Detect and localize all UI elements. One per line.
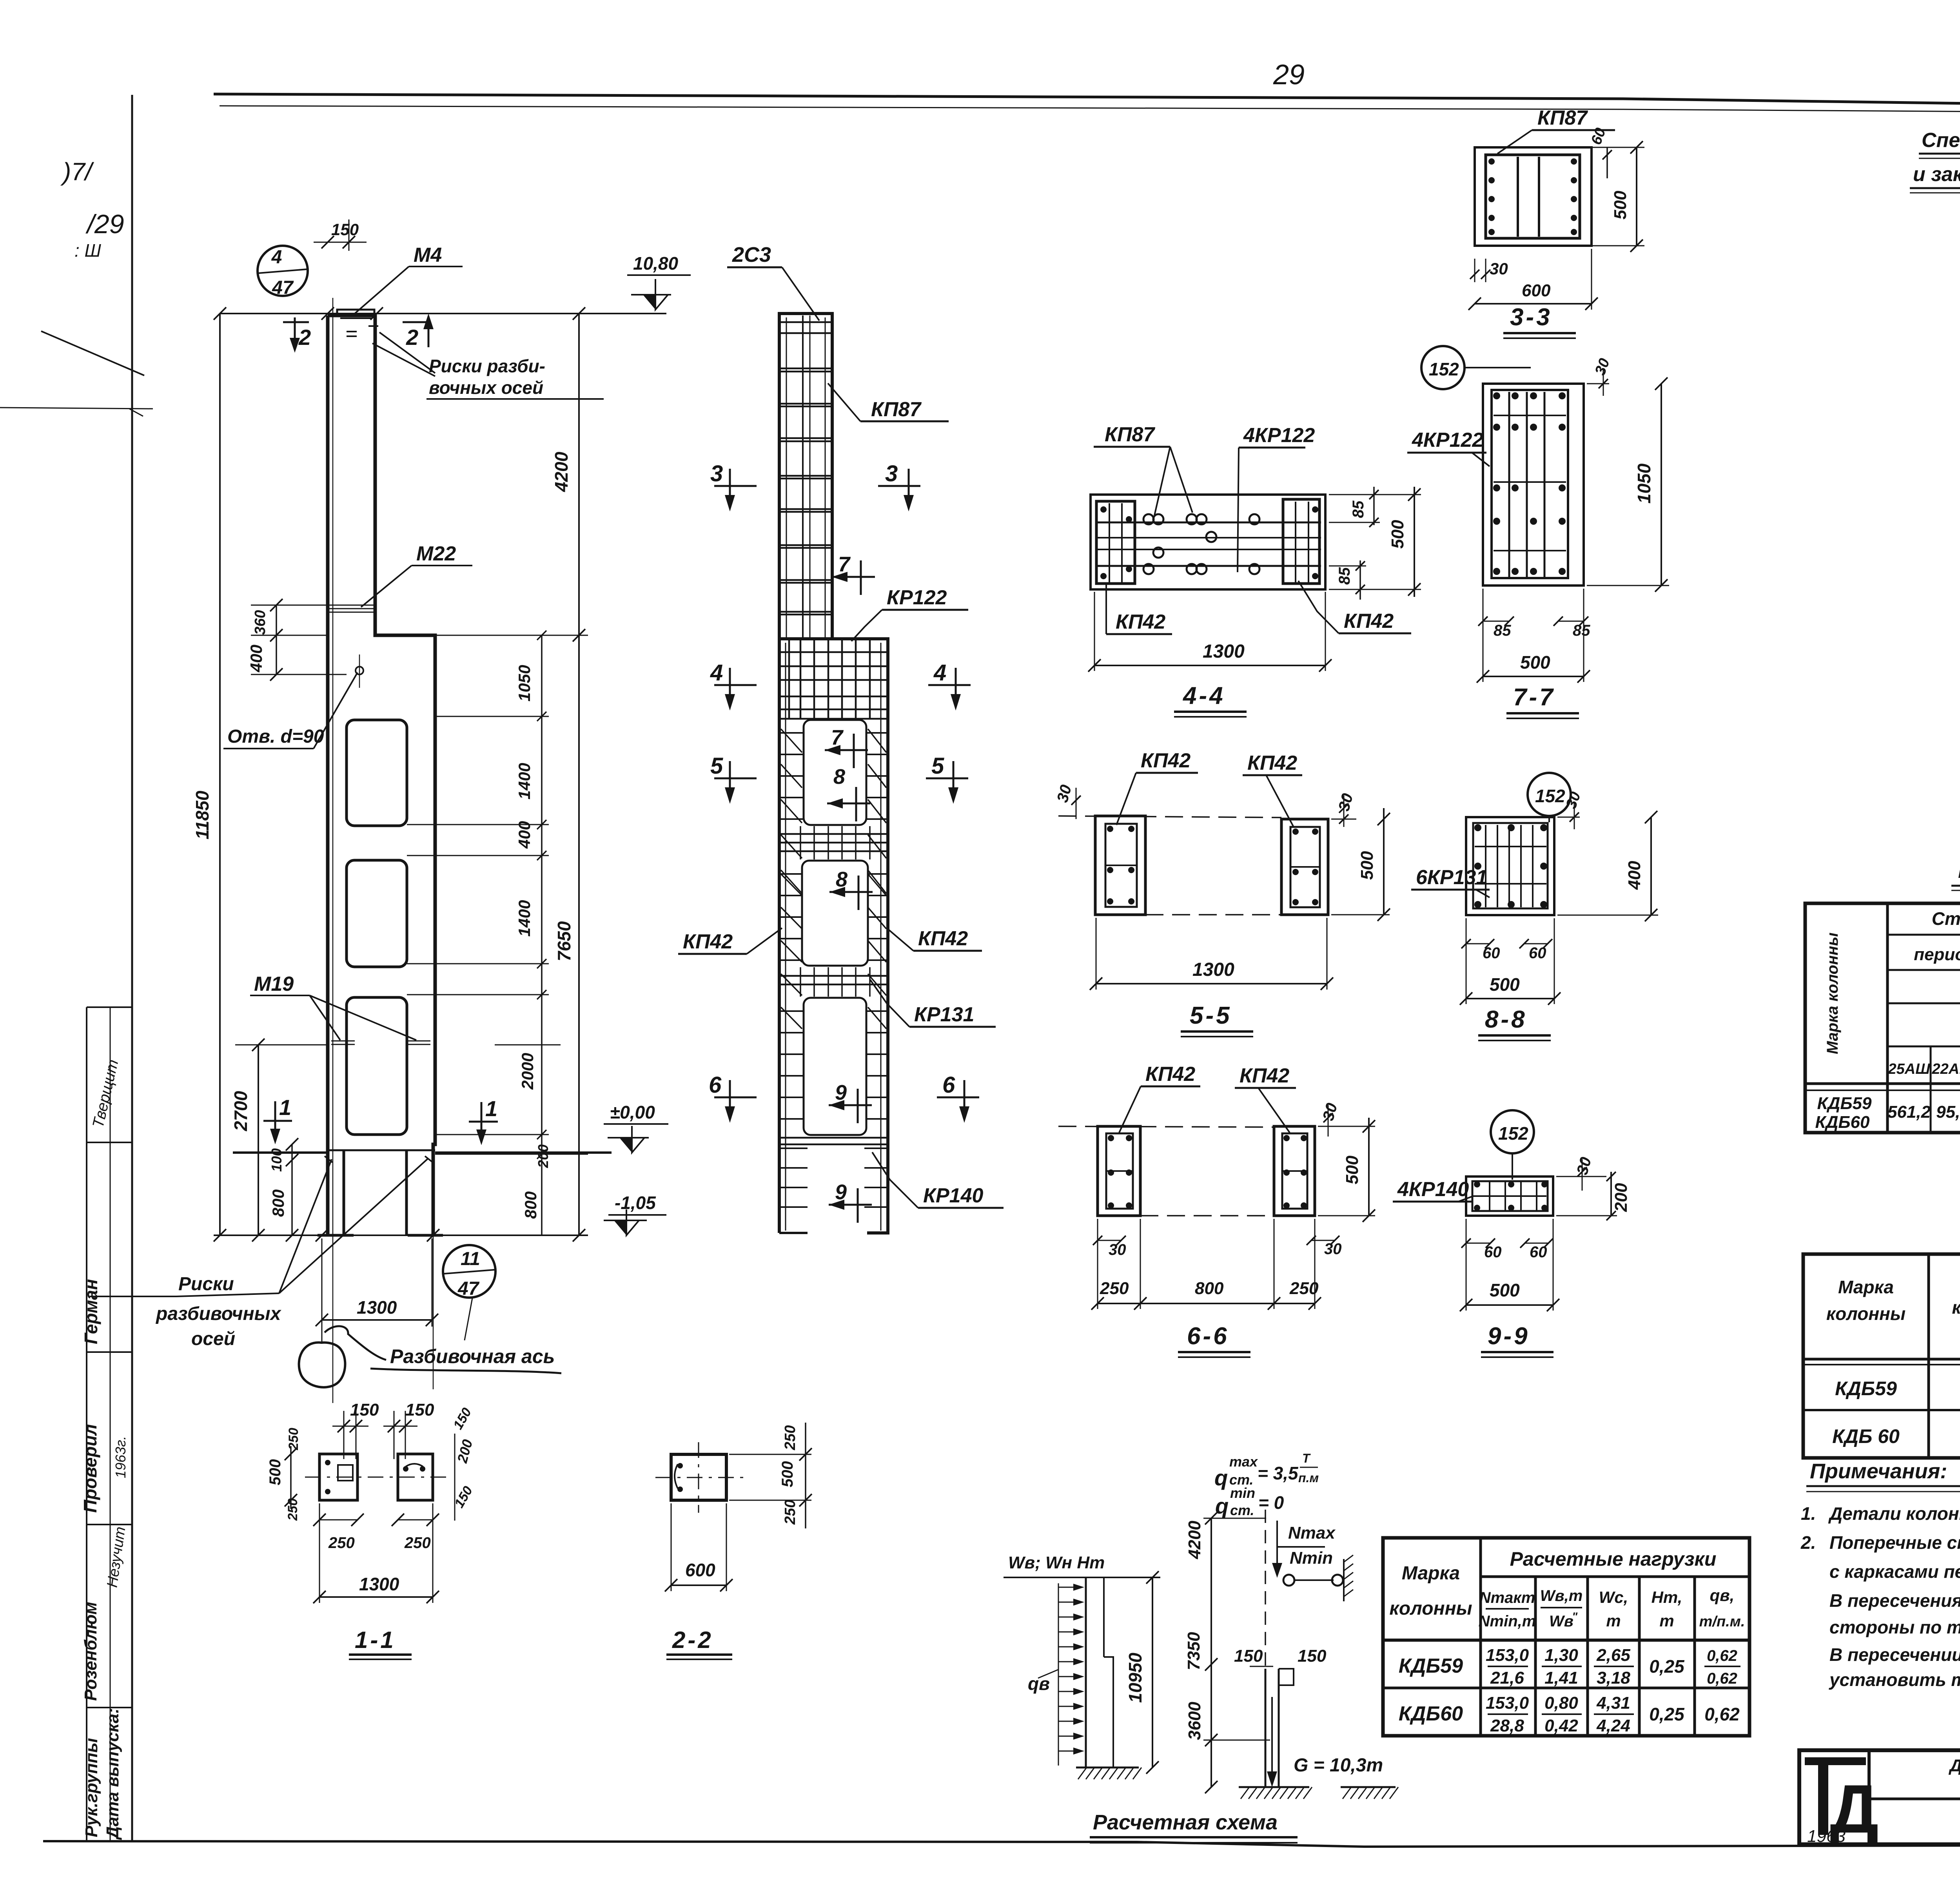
svg-text:5: 5 <box>710 753 723 779</box>
svg-text:800: 800 <box>1195 1279 1224 1298</box>
svg-text:КДБ60: КДБ60 <box>1399 1702 1463 1725</box>
cage elevation: upper shaft outline <box>779 314 832 639</box>
section 3-3: dim 500 right <box>1636 147 1637 246</box>
section 7-7: concrete outline <box>1483 384 1584 586</box>
section 1-1: branch rectangles <box>319 1454 358 1500</box>
section 3-3: rebar dots <box>1488 158 1495 165</box>
section 7-7: dim 1050 right <box>1661 384 1662 586</box>
section 9-9: cage content <box>1472 1181 1548 1211</box>
svg-text:0,25: 0,25 <box>1649 1656 1685 1677</box>
svg-text:4: 4 <box>933 660 946 685</box>
title block: logo cell divider <box>1867 1750 1871 1844</box>
svg-text:Розенблюм: Розенблюм <box>81 1602 100 1701</box>
svg-text:150: 150 <box>1298 1646 1327 1666</box>
svg-text:1400: 1400 <box>515 763 534 799</box>
svg-text:Риски: Риски <box>178 1274 234 1294</box>
column elevation: 100/800 dims at base <box>291 1144 293 1235</box>
svg-text:Wc,: Wc, <box>1599 1588 1628 1606</box>
svg-text:Марка колонны: Марка колонны <box>1824 932 1841 1054</box>
svg-text:30: 30 <box>1054 783 1075 804</box>
svg-text:М22: М22 <box>416 542 456 565</box>
svg-text:200: 200 <box>535 1144 551 1168</box>
svg-text:6КР131: 6КР131 <box>1416 866 1487 889</box>
svg-text:qв,: qв, <box>1710 1586 1735 1604</box>
svg-text:Риски разби-: Риски разби- <box>429 356 545 376</box>
svg-text:8: 8 <box>836 868 848 891</box>
section 7-7: circle mark 152 <box>1421 346 1465 389</box>
svg-text:Разбивочная ась: Разбивочная ась <box>390 1345 555 1367</box>
svg-text:1963: 1963 <box>1807 1827 1846 1846</box>
svg-text:2700: 2700 <box>230 1091 251 1131</box>
svg-text:3,18: 3,18 <box>1597 1668 1630 1688</box>
svg-text:В пересечениях ветвей с рядо: В пересечениях ветвей с рядовыми перемыч… <box>1829 1590 1960 1611</box>
svg-text:11850: 11850 <box>192 790 212 839</box>
section 5-5: dim 500 right <box>1383 808 1385 915</box>
section mark 1 left <box>263 1120 292 1122</box>
svg-text:": " <box>1572 1610 1578 1623</box>
svg-text:1: 1 <box>485 1096 497 1121</box>
svg-text:10,80: 10,80 <box>633 253 679 274</box>
section mark 5 right of cage <box>926 778 968 780</box>
svg-text:0,42: 0,42 <box>1544 1716 1578 1735</box>
svg-text:1-1: 1-1 <box>355 1627 396 1653</box>
svg-text:= 0: = 0 <box>1258 1492 1284 1513</box>
cage elevation: wide part outline <box>832 639 888 1233</box>
svg-text:Стержневая арматура по ГОСТ: Стержневая арматура по ГОСТ 5781-61 <box>1932 908 1960 929</box>
section 3-3: cage rect <box>1486 155 1580 238</box>
svg-text:85: 85 <box>1494 622 1511 639</box>
section 8-8: concrete outline <box>1466 817 1554 915</box>
svg-text:800: 800 <box>521 1191 540 1219</box>
calc scheme: Nmax arrow <box>1276 1521 1278 1573</box>
svg-text:Wв: Wв <box>1549 1613 1573 1630</box>
svg-text:разбивочных: разбивочных <box>155 1303 282 1324</box>
svg-text:ст.: ст. <box>1230 1502 1254 1518</box>
svg-text:500: 500 <box>779 1461 796 1487</box>
svg-text:3: 3 <box>885 461 898 486</box>
svg-text:360: 360 <box>252 610 269 635</box>
svg-text:500: 500 <box>1490 974 1520 995</box>
svg-text:Расчетные нагрузки: Расчетные нагрузки <box>1510 1548 1717 1570</box>
scan diagonal stroke left margin <box>41 331 144 375</box>
svg-text:Проверил: Проверил <box>80 1424 100 1513</box>
svg-text:Незучит: Незучит <box>104 1526 129 1588</box>
svg-text:КП42: КП42 <box>918 927 968 950</box>
column elevation: left dim line 11850 <box>219 314 221 1235</box>
svg-text:600: 600 <box>685 1560 715 1580</box>
svg-text:150: 150 <box>1234 1646 1263 1666</box>
svg-text:3600: 3600 <box>1185 1702 1204 1740</box>
svg-text:КП42: КП42 <box>1240 1064 1289 1087</box>
svg-text:-1,05: -1,05 <box>615 1193 656 1213</box>
svg-text:152: 152 <box>1535 786 1565 806</box>
svg-text:150: 150 <box>350 1400 379 1419</box>
stamp cell borders <box>87 1006 132 1008</box>
svg-text:250: 250 <box>782 1500 799 1525</box>
svg-text:КП42: КП42 <box>1247 752 1297 774</box>
column elevation: axis line (vertical) <box>332 298 334 1403</box>
calc scheme: G arrow and label <box>1271 1697 1273 1781</box>
cage elevation: shaft ties <box>781 321 831 323</box>
section mark 3 left of cage <box>714 485 757 487</box>
svg-text:2: 2 <box>406 325 418 350</box>
svg-text:В пересечении ветвей с ве: В пересечении ветвей с верхней и нижней … <box>1829 1644 1960 1665</box>
steel table: sub column verticals <box>1930 1046 1932 1133</box>
svg-text:Nmax: Nmax <box>1288 1523 1336 1543</box>
svg-text:вочных осей: вочных осей <box>429 377 543 398</box>
svg-text:250: 250 <box>285 1498 300 1521</box>
svg-text:КП87: КП87 <box>1537 107 1588 129</box>
svg-text:5-5: 5-5 <box>1190 1002 1232 1029</box>
column elevation: floor line ±0.00 <box>233 1151 328 1154</box>
svg-text:8-8: 8-8 <box>1485 1006 1527 1033</box>
svg-text:п.м: п.м <box>1298 1471 1319 1485</box>
svg-text:qв: qв <box>1028 1673 1050 1694</box>
svg-text:85: 85 <box>1573 622 1590 639</box>
calc scheme: ground hatch right <box>1239 1786 1309 1788</box>
svg-text:250: 250 <box>328 1534 355 1552</box>
calc scheme: load arrows <box>1058 1587 1083 1588</box>
svg-text:1300: 1300 <box>1192 959 1234 980</box>
steel table: big verticals <box>1886 903 1889 1133</box>
svg-text:95,7: 95,7 <box>1936 1102 1960 1122</box>
svg-text:КР131: КР131 <box>914 1003 974 1026</box>
section 1-1: right dims 150/200/150 <box>454 1434 456 1521</box>
svg-text:153,0: 153,0 <box>1486 1693 1529 1713</box>
column elevation: M22 embed dashes <box>328 605 376 606</box>
svg-text:1963г.: 1963г. <box>113 1436 129 1478</box>
svg-text:500: 500 <box>1490 1280 1520 1300</box>
svg-text:22АШ: 22АШ <box>1932 1061 1960 1077</box>
svg-text:25АШ: 25АШ <box>1888 1061 1931 1077</box>
svg-text:т: т <box>1659 1612 1674 1630</box>
circle mark 4/47 top left <box>258 246 308 296</box>
section 8-8: circle mark 152 <box>1528 773 1571 816</box>
cage elevation: wide part top grid ties <box>780 651 887 653</box>
svg-text:КП87: КП87 <box>1105 423 1155 446</box>
svg-text:500: 500 <box>1343 1155 1362 1184</box>
svg-text:6-6: 6-6 <box>1187 1323 1229 1350</box>
svg-text:47: 47 <box>272 277 294 298</box>
section 3-3: dim 60 right top <box>1606 147 1608 178</box>
loads table: horizontals <box>1481 1575 1749 1578</box>
calc scheme: 4200 dim <box>1210 1518 1212 1664</box>
svg-text:4,24: 4,24 <box>1596 1716 1630 1735</box>
svg-text:800: 800 <box>269 1189 287 1217</box>
svg-text:КП87: КП87 <box>871 398 922 421</box>
section 3-3: cage vertical bars <box>1517 157 1519 237</box>
svg-text:6: 6 <box>942 1072 955 1098</box>
svg-text:9: 9 <box>835 1081 847 1104</box>
svg-text:600: 600 <box>1522 281 1551 300</box>
section 4-4: bar-end circles <box>1143 514 1154 524</box>
riska leader lines (bottom) <box>279 1159 332 1293</box>
steel table: outer border <box>1805 903 1960 1133</box>
left margin stamp column outer line <box>86 1007 87 1842</box>
svg-text:30: 30 <box>1592 356 1613 377</box>
calc scheme: 7350 dim <box>1210 1664 1212 1740</box>
section 1-1: center dash line <box>305 1477 447 1478</box>
svg-text:0,62: 0,62 <box>1704 1704 1740 1724</box>
svg-text:28,8: 28,8 <box>1490 1716 1524 1735</box>
section mark 2 right at top <box>403 321 428 323</box>
svg-text:Спецификация марок арматурных: Спецификация марок арматурных изделий <box>1922 129 1960 152</box>
section mark 1 right <box>469 1121 498 1123</box>
sheet frame bottom border <box>43 1841 1960 1847</box>
svg-text:КП42: КП42 <box>683 930 733 953</box>
svg-text:Герман: Герман <box>81 1279 101 1344</box>
label Разбивочная ась with curved leader <box>325 1326 386 1360</box>
svg-text:стороны по три дополнительн: стороны по три дополнительные шпильки . … <box>1829 1617 1960 1637</box>
svg-text:с каркасами перемычек.: с каркасами перемычек. <box>1829 1561 1960 1582</box>
section 9-9: concrete outline <box>1466 1177 1553 1216</box>
calc scheme: ground hatch left <box>1076 1767 1139 1769</box>
svg-text:КП42: КП42 <box>1116 611 1165 633</box>
svg-text:Детали колонн см. листы 47: Детали колонн см. листы 47, 48 и 49. <box>1828 1503 1960 1524</box>
steel table: double rule above data <box>1805 1082 1960 1085</box>
svg-text:G = 10,3т: G = 10,3т <box>1294 1755 1383 1776</box>
svg-text:3: 3 <box>710 461 723 486</box>
section mark 4 right of cage <box>928 684 971 686</box>
svg-text:500: 500 <box>1388 520 1407 549</box>
svg-text:30: 30 <box>1490 259 1508 278</box>
column elevation: middle dim line 1050/1400/400/1400/400/2000/200/800 <box>541 635 543 1235</box>
column elevation: 2000 dim extension <box>495 1044 561 1046</box>
svg-text:1050: 1050 <box>1634 463 1654 504</box>
section 4-4: concrete outline <box>1091 495 1325 589</box>
svg-text:2-2: 2-2 <box>672 1627 713 1653</box>
section 5-5: left cage block <box>1095 816 1145 915</box>
svg-text:150: 150 <box>405 1400 434 1419</box>
svg-text:0,62: 0,62 <box>1707 1670 1737 1687</box>
svg-text:КР140: КР140 <box>923 1184 983 1207</box>
svg-text:4,31: 4,31 <box>1596 1693 1630 1713</box>
svg-text:400: 400 <box>1625 861 1644 890</box>
section 7-7: cage rect <box>1492 390 1568 578</box>
svg-text:7-7: 7-7 <box>1513 684 1555 711</box>
svg-text:47: 47 <box>457 1278 480 1299</box>
section 1-1: left dims 250/500/250 <box>290 1446 292 1509</box>
section 2-2: center dash line <box>655 1477 745 1478</box>
section 7-7: rebar dot clusters <box>1493 392 1500 399</box>
cage elevation: wide part top grid verticals <box>788 640 790 719</box>
svg-text:400: 400 <box>247 645 265 673</box>
svg-text:200: 200 <box>1612 1183 1631 1212</box>
svg-text:4-4: 4-4 <box>1182 682 1225 709</box>
svg-text:Марка: Марка <box>1838 1277 1894 1297</box>
svg-text:2.: 2. <box>1800 1532 1816 1553</box>
section mark 6 right of cage <box>937 1097 979 1099</box>
svg-text:500: 500 <box>1611 190 1630 219</box>
title block: ТД logo <box>1805 1757 1866 1765</box>
svg-text:Двухветвевые колонны одноэ: Двухветвевые колонны одноэтажных бескран… <box>1948 1756 1960 1775</box>
svg-text:q: q <box>1215 1494 1229 1518</box>
razbivochnaya axis cloud circle <box>299 1343 345 1387</box>
svg-text:153,0: 153,0 <box>1486 1646 1529 1665</box>
cage elevation: branch diagonals <box>781 729 802 752</box>
cage elevation: bottom crossbar grid <box>780 1137 887 1139</box>
section mark 3 right of cage <box>878 485 920 487</box>
svg-text:Выборка стали на одну ко: Выборка стали на одну колонну, кг <box>1958 860 1960 883</box>
svg-text:7350: 7350 <box>1184 1632 1203 1670</box>
svg-text:КП42: КП42 <box>1344 610 1394 633</box>
svg-text:29: 29 <box>1273 59 1305 91</box>
column elevation: M19 embed dashes <box>331 1041 355 1042</box>
section 4-4: long horizontal bars <box>1098 522 1321 524</box>
section 8-8: dim 30 top right <box>1557 817 1580 818</box>
column elevation: base bottom lines <box>318 1234 354 1237</box>
cage elevation: branch ties and laces <box>780 732 803 734</box>
section 8-8: dim 400 right <box>1650 817 1652 915</box>
svg-text:7650: 7650 <box>554 921 574 961</box>
svg-text:2С3: 2С3 <box>732 243 771 266</box>
svg-text:200: 200 <box>454 1438 475 1465</box>
svg-text:Отв. d=90: Отв. d=90 <box>227 726 324 747</box>
section 4-4: dims 85/500/85 right <box>1373 487 1375 525</box>
svg-text:11: 11 <box>461 1249 480 1269</box>
svg-text:85: 85 <box>1350 500 1367 518</box>
svg-text:1400: 1400 <box>515 900 534 937</box>
steel table: header horizontals <box>1887 934 1960 936</box>
column elevation: 360/400 dims at step <box>276 605 277 674</box>
riska marks at base <box>325 1156 332 1162</box>
svg-text:7: 7 <box>838 553 851 576</box>
svg-text:1300: 1300 <box>359 1574 399 1594</box>
section 1-1: inner details <box>338 1465 353 1481</box>
svg-text:Wв; Wн Нт: Wв; Wн Нт <box>1008 1553 1105 1572</box>
svg-text:= 3,5: = 3,5 <box>1258 1463 1299 1483</box>
title block: outer border <box>1799 1750 1960 1844</box>
section 6-6: right branch rect <box>1274 1126 1315 1216</box>
calc scheme: load column line <box>1085 1577 1087 1767</box>
section 4-4: left cage block <box>1096 501 1135 584</box>
svg-text:КДБ60: КДБ60 <box>1815 1113 1870 1132</box>
section 8-8: cage content <box>1473 823 1548 908</box>
svg-text:Wв,т: Wв,т <box>1540 1587 1583 1604</box>
index table: outer border <box>1803 1254 1960 1458</box>
svg-text:т/п.м.: т/п.м. <box>1699 1613 1745 1630</box>
svg-text:4: 4 <box>271 247 282 268</box>
index table: double rule above data <box>1803 1358 1960 1361</box>
svg-text:/29: /29 <box>85 209 124 239</box>
svg-text:2,65: 2,65 <box>1596 1646 1630 1665</box>
svg-text:4200: 4200 <box>551 451 572 492</box>
column elevation: openings (3 rounded rects) <box>347 720 407 826</box>
svg-text:М4: М4 <box>414 244 442 266</box>
svg-text:Дата выпуска:: Дата выпуска: <box>103 1708 122 1840</box>
svg-text:0,80: 0,80 <box>1544 1693 1578 1713</box>
svg-text:250: 250 <box>1100 1279 1129 1298</box>
svg-text:и закладных элементов на одну: и закладных элементов на одну колонну <box>1913 163 1960 186</box>
svg-text:КДБ59: КДБ59 <box>1399 1655 1463 1677</box>
svg-text:30: 30 <box>1335 792 1356 813</box>
cage elevation: crossbar grids between openings <box>780 833 887 835</box>
svg-text:4КР122: 4КР122 <box>1243 424 1315 447</box>
svg-text:min: min <box>1230 1485 1255 1501</box>
section mark 4 left of cage <box>714 684 757 686</box>
svg-text:Nmaкт: Nmaкт <box>1479 1589 1535 1606</box>
svg-text:Марка: Марка <box>1402 1563 1460 1584</box>
svg-text:1,30: 1,30 <box>1544 1646 1578 1665</box>
section 7-7: cage vertical bars <box>1508 392 1510 577</box>
cage elevation: shaft vertical bars <box>802 315 804 638</box>
column elevation: right dim line 4200/7650 <box>578 314 580 1235</box>
section 7-7: cage horizontal bars <box>1494 415 1566 416</box>
svg-text:152: 152 <box>1429 359 1459 379</box>
svg-text:2000: 2000 <box>518 1053 537 1090</box>
svg-text:Тверщит: Тверщит <box>89 1058 122 1129</box>
section 6-6: dim 500 right <box>1368 1118 1370 1216</box>
svg-text:1050: 1050 <box>515 665 534 702</box>
section mark 6 left of cage <box>714 1097 757 1099</box>
sheet frame left border <box>131 95 133 1842</box>
title block: middle horizontal divider <box>1869 1798 1960 1800</box>
column elevation: crossbar edges <box>328 1149 435 1151</box>
svg-text:колонны: колонны <box>1389 1598 1472 1619</box>
loads table: outer border <box>1383 1538 1749 1736</box>
cage elevation: openings <box>804 720 866 825</box>
section mark 5 left of cage <box>714 778 757 780</box>
svg-text:КП42: КП42 <box>1145 1063 1195 1086</box>
svg-text:400: 400 <box>515 821 534 849</box>
section 5-5: connecting dash lines <box>1058 816 1281 818</box>
svg-text:250: 250 <box>286 1428 301 1450</box>
svg-text:4КР140: 4КР140 <box>1397 1178 1469 1201</box>
svg-text:152: 152 <box>1498 1123 1528 1144</box>
svg-text:500: 500 <box>267 1459 284 1485</box>
svg-text:21,6: 21,6 <box>1490 1668 1524 1688</box>
section mark 2 left at top <box>283 321 309 323</box>
svg-text:8: 8 <box>833 765 845 789</box>
svg-text:: Ш: : Ш <box>74 240 102 261</box>
column elevation: hole Отв d=90 <box>356 667 363 674</box>
circle mark 11/47 <box>443 1245 495 1298</box>
svg-text:т: т <box>1606 1612 1621 1630</box>
svg-text:М19: М19 <box>254 973 294 995</box>
svg-text:max: max <box>1229 1454 1258 1470</box>
section 6-6: connecting dash lines <box>1058 1126 1274 1127</box>
section 6-6: left branch rect <box>1098 1126 1140 1216</box>
svg-text:4: 4 <box>710 660 723 685</box>
svg-text:1300: 1300 <box>1203 641 1245 662</box>
section 2-2: right dims 250/500/250 <box>805 1423 806 1528</box>
svg-text:)7/: )7/ <box>60 158 94 186</box>
section 9-9: dim 200 right <box>1610 1172 1612 1216</box>
svg-text:Расчетная схема: Расчетная схема <box>1093 1811 1278 1834</box>
section 2-2: rectangle <box>671 1454 726 1500</box>
index table: verticals <box>1927 1254 1930 1458</box>
section 9-9: circle mark 152 with leader <box>1491 1110 1534 1153</box>
svg-text:10950: 10950 <box>1125 1653 1145 1703</box>
section 4-4: right cage block <box>1283 499 1319 584</box>
svg-text:150: 150 <box>450 1405 474 1432</box>
svg-text:60: 60 <box>1588 126 1609 147</box>
svg-text:0,62: 0,62 <box>1707 1647 1737 1664</box>
calc scheme: top hinge <box>1283 1575 1294 1586</box>
svg-text:9-9: 9-9 <box>1488 1323 1530 1350</box>
column elevation: extension lines right <box>377 635 588 636</box>
svg-text:Т: Т <box>1302 1451 1311 1465</box>
svg-text:7: 7 <box>831 726 844 749</box>
svg-text:500: 500 <box>1520 652 1550 673</box>
svg-text:9: 9 <box>835 1180 847 1204</box>
svg-text:Nmin: Nmin <box>1290 1548 1333 1568</box>
column elevation: top dimension line <box>220 313 666 314</box>
svg-text:6: 6 <box>709 1072 722 1098</box>
svg-text:85: 85 <box>1336 567 1353 585</box>
svg-text:0,25: 0,25 <box>1649 1704 1685 1724</box>
svg-text:Рук.группы: Рук.группы <box>82 1738 101 1837</box>
